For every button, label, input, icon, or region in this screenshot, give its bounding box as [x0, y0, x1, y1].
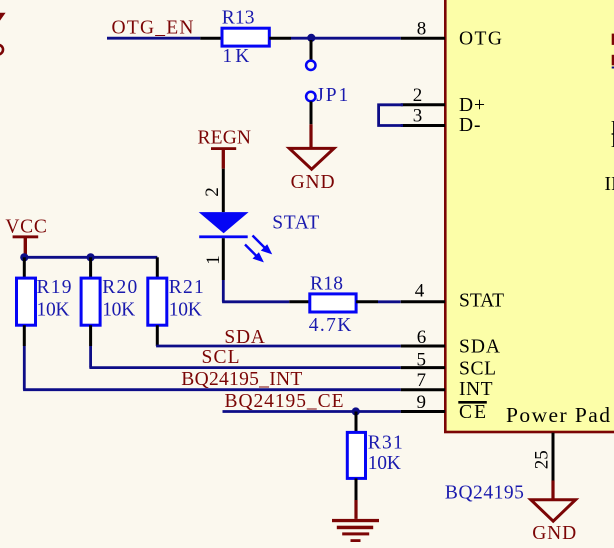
wire junction to JP1 — [310, 40, 313, 61]
wire R19 down — [23, 346, 26, 390]
svg-text:OTG_EN: OTG_EN — [112, 18, 194, 39]
pin 4 (STAT) stub — [401, 300, 445, 303]
pin 5 (SCL) stub — [401, 366, 445, 369]
right edge maroon fragment 2 — [612, 55, 614, 66]
svg-text:7: 7 — [417, 370, 427, 391]
pin 25 stub black — [552, 433, 555, 481]
left edge partial power arrow — [0, 13, 6, 21]
svg-text:5: 5 — [417, 349, 427, 370]
svg-text:SDA: SDA — [459, 337, 500, 358]
LED bottom lead — [222, 238, 225, 280]
svg-text:R13: R13 — [222, 8, 255, 29]
R21 bottom lead — [156, 325, 159, 346]
svg-text:D+: D+ — [459, 95, 485, 116]
wire CE horizontal — [223, 410, 401, 413]
REGN stub — [222, 150, 225, 169]
pin 8 (OTG) stub — [401, 37, 445, 40]
svg-text:STAT: STAT — [272, 213, 319, 234]
svg-text:OTG: OTG — [459, 29, 502, 50]
R31 top lead — [355, 412, 358, 433]
svg-text:BQ24195: BQ24195 — [445, 483, 524, 504]
wire R13 to pin 8 — [291, 37, 401, 40]
R31 ground stub maroon — [354, 500, 357, 519]
svg-text:SDA: SDA — [224, 327, 265, 348]
wire SDA horizontal — [156, 345, 401, 348]
wire VCC bus — [24, 256, 157, 259]
svg-text:R18: R18 — [310, 274, 343, 295]
svg-text:10K: 10K — [368, 453, 401, 474]
R18 right lead — [356, 300, 378, 303]
LED emission arrow 1 — [253, 236, 273, 255]
svg-text:R20: R20 — [102, 277, 137, 298]
REGN bar — [211, 147, 236, 150]
svg-text:6: 6 — [417, 327, 427, 348]
VCC bar — [13, 235, 39, 238]
earth ground bar 4 — [351, 539, 361, 542]
svg-text:25: 25 — [532, 450, 553, 469]
wire OTG_EN to R13 — [107, 37, 200, 40]
svg-text:1K: 1K — [222, 46, 249, 67]
wire LED to R18 — [222, 300, 289, 303]
svg-text:2: 2 — [413, 85, 423, 106]
jumper JP1 pin circle bottom — [306, 92, 315, 101]
junction at R19 top — [20, 253, 28, 261]
svg-text:10K: 10K — [102, 299, 135, 320]
jumper JP1 pin circle top — [306, 61, 315, 70]
wire LED down — [222, 280, 225, 302]
svg-text:GND: GND — [291, 172, 335, 193]
wire R18 to pin 4 — [378, 300, 401, 303]
LED anode triangle — [199, 212, 249, 233]
svg-text:2: 2 — [202, 187, 223, 197]
earth ground bar 2 — [337, 526, 373, 530]
R18 left lead — [289, 300, 310, 303]
earth ground bar 3 — [342, 532, 369, 535]
ground GND bottom-right — [531, 500, 576, 522]
svg-text:INT: INT — [459, 379, 493, 400]
junction on OTG wire — [307, 34, 315, 42]
pin 3 (D-) stub — [401, 124, 445, 127]
svg-text:9: 9 — [417, 392, 427, 413]
svg-text:1: 1 — [203, 255, 224, 265]
right edge maroon fragment 1 — [612, 34, 614, 45]
R13 left lead — [200, 37, 222, 40]
junction at R20 top — [87, 253, 95, 261]
resistor R19 body — [17, 278, 36, 325]
svg-text:10K: 10K — [169, 299, 202, 320]
svg-text:REGN: REGN — [198, 128, 252, 149]
svg-text:JP1: JP1 — [316, 85, 348, 106]
wire JP1 to GND black — [310, 101, 313, 124]
svg-text:BQ24195_INT: BQ24195_INT — [181, 369, 302, 390]
pin 9 (CE) stub — [401, 410, 445, 413]
svg-text:4: 4 — [415, 280, 425, 301]
right edge navy fragment — [612, 67, 614, 69]
svg-text:R19: R19 — [37, 277, 72, 298]
R20 top lead — [89, 257, 92, 278]
svg-text:4.7K: 4.7K — [309, 315, 352, 336]
earth ground bar 1 — [332, 519, 379, 522]
R20 bottom lead — [89, 325, 92, 346]
wire JP1 to GND maroon — [309, 124, 312, 147]
svg-text:GND: GND — [532, 523, 576, 544]
resistor R18 body — [310, 294, 356, 312]
VCC stub — [24, 238, 27, 254]
svg-text:BQ24195_CE: BQ24195_CE — [225, 391, 344, 412]
pin 6 (SDA) stub — [401, 345, 445, 348]
wire REGN to LED — [222, 169, 225, 212]
left edge partial ring — [0, 45, 3, 55]
LED cathode bar — [199, 235, 248, 238]
svg-text:STAT: STAT — [459, 291, 504, 312]
svg-text:D-: D- — [459, 115, 481, 136]
resistor R20 body — [81, 278, 100, 325]
R13 right lead — [269, 37, 291, 40]
pin 2 (D+) stub — [401, 103, 445, 106]
IC U1 BQ24195 body — [445, 0, 614, 432]
svg-text:10K: 10K — [37, 299, 70, 320]
wire R20 down — [89, 346, 92, 368]
wire D+ D- loop — [379, 105, 403, 126]
ground GND under JP1 — [289, 148, 334, 169]
resistor R21 body — [148, 278, 167, 325]
pin 7 (INT) stub — [401, 388, 445, 391]
svg-text:SCL: SCL — [459, 358, 496, 379]
resistor R13 body — [222, 28, 269, 46]
pin 25 stub maroon — [551, 481, 554, 500]
wire SCL horizontal — [89, 366, 400, 369]
svg-text:VCC: VCC — [5, 217, 47, 238]
svg-text:3: 3 — [413, 105, 423, 126]
pin CE overline — [458, 401, 487, 404]
R31 bottom lead — [355, 478, 358, 500]
wire INT horizontal — [23, 388, 401, 391]
LED emission arrow 2 — [245, 245, 264, 263]
R19 top lead — [23, 257, 26, 278]
resistor R31 body — [347, 432, 365, 478]
svg-text:R21: R21 — [169, 277, 204, 298]
junction at R31 top — [352, 407, 360, 415]
svg-text:R31: R31 — [368, 433, 403, 454]
R21 top lead — [156, 257, 159, 278]
svg-text:8: 8 — [417, 19, 427, 40]
R19 bottom lead — [23, 325, 26, 346]
svg-text:SCL: SCL — [202, 347, 240, 368]
svg-text:II: II — [605, 174, 614, 195]
